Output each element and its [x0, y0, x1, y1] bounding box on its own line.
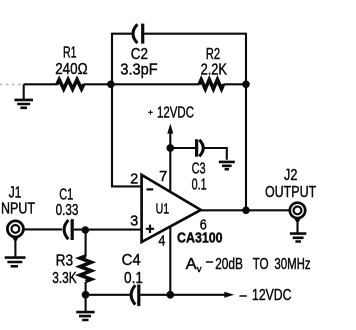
svg-text:240Ω: 240Ω: [55, 61, 87, 78]
svg-text:R2: R2: [206, 46, 220, 63]
svg-text:2.2K: 2.2K: [201, 62, 228, 79]
svg-text:TO: TO: [253, 256, 269, 273]
svg-text:3.3K: 3.3K: [52, 270, 77, 287]
svg-text:C2: C2: [131, 46, 148, 63]
svg-text:A: A: [186, 256, 198, 273]
svg-text:0.33: 0.33: [56, 202, 79, 219]
svg-text:OUTPUT: OUTPUT: [265, 184, 316, 201]
svg-text:C3: C3: [192, 161, 206, 178]
svg-text:INPUT: INPUT: [0, 201, 35, 218]
svg-text:CA3100: CA3100: [177, 230, 223, 247]
svg-text:R3: R3: [56, 253, 74, 270]
svg-text:v: v: [197, 264, 202, 275]
svg-text:J2: J2: [284, 167, 297, 184]
svg-text:0.1: 0.1: [192, 177, 207, 194]
svg-text:C4: C4: [122, 252, 141, 269]
svg-text:7: 7: [159, 169, 167, 185]
svg-text:U1: U1: [156, 200, 170, 217]
svg-text:30MHz: 30MHz: [274, 256, 310, 273]
svg-text:–: –: [240, 287, 247, 304]
svg-text:C1: C1: [59, 186, 73, 203]
svg-text:20dB: 20dB: [215, 256, 243, 273]
svg-text:–: –: [206, 253, 213, 270]
svg-text:0.1: 0.1: [124, 270, 143, 287]
svg-text:4: 4: [158, 233, 165, 249]
svg-text:3.3pF: 3.3pF: [120, 62, 157, 79]
svg-text:12VDC: 12VDC: [252, 287, 292, 304]
svg-text:+: +: [148, 107, 153, 117]
svg-text:3: 3: [130, 214, 138, 230]
svg-text:2: 2: [130, 171, 138, 187]
svg-text:12VDC: 12VDC: [157, 104, 194, 121]
svg-text:R1: R1: [63, 45, 77, 62]
svg-text:J1: J1: [9, 185, 22, 202]
